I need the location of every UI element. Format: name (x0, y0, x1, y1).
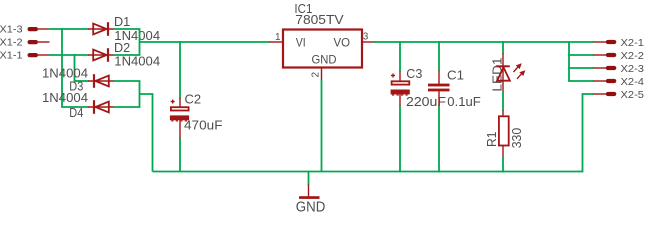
resistor R1 (485, 110, 524, 157)
connector pin X2-1 (593, 37, 644, 49)
wire C2 top stem (179, 41, 181, 99)
svg-text:GND: GND (312, 53, 337, 67)
connector pin X1-1 (0, 50, 49, 62)
svg-text:LED1: LED1 (490, 57, 504, 91)
connector pin X2-5 (593, 89, 644, 101)
wire to D3 cathode (74, 80, 89, 82)
svg-text:D4: D4 (69, 106, 83, 120)
diode D1 (88, 15, 160, 43)
wire vertical X1-1 down to D3 cathode line (74, 54, 76, 81)
connector pin X2-4 (593, 76, 644, 88)
connector pin X2-2 (593, 50, 644, 62)
wire C3 top stem (399, 41, 401, 72)
svg-text:X2-4: X2-4 (621, 76, 645, 88)
ground (296, 185, 326, 216)
svg-text:X1-1: X1-1 (0, 50, 23, 62)
wire IC1 VO output line (374, 41, 594, 43)
svg-text:470uF: 470uF (184, 119, 223, 133)
svg-text:X2-3: X2-3 (621, 63, 645, 75)
wire LED top stem (502, 41, 504, 54)
LED LED1 (490, 54, 525, 93)
svg-text:C2: C2 (185, 92, 202, 106)
diode D3 (42, 67, 114, 94)
wire branch to X2-3 (568, 67, 593, 69)
diode D2 (88, 41, 160, 68)
svg-text:X2-2: X2-2 (621, 50, 645, 62)
IC1 pin 2 (321, 68, 323, 81)
wire branch to X2-4 (568, 80, 593, 82)
wire jog to ground rail (140, 94, 153, 172)
capacitor C1 (428, 69, 481, 109)
wire D2 cathode to junction (114, 54, 141, 56)
IC1 7805TV voltage regulator (269, 2, 375, 80)
wire X1-1 to D2 anode (49, 54, 89, 56)
svg-text:2: 2 (311, 72, 322, 78)
wire GND stem (308, 172, 310, 186)
wire vertical X1-3 down to D4 cathode line (61, 28, 63, 107)
svg-text:R1: R1 (485, 131, 499, 147)
IC1 pin 3 (362, 41, 375, 43)
svg-text:X1-2: X1-2 (0, 37, 23, 49)
connector pin X1-3 (0, 24, 49, 36)
svg-text:330: 330 (510, 128, 524, 149)
svg-text:VO: VO (334, 35, 351, 49)
wire X2 branch vertical (568, 42, 570, 81)
wire D4 anode to junction (114, 106, 141, 108)
connector pin X2-3 (593, 63, 644, 75)
svg-text:220uF: 220uF (406, 95, 446, 109)
wire D1 cathode to junction (114, 28, 141, 30)
svg-text:VI: VI (296, 35, 306, 49)
wire X2-5 to ground rail (583, 94, 594, 172)
IC1 pin 1 (269, 41, 283, 43)
svg-text:D1: D1 (114, 15, 130, 29)
svg-text:D2: D2 (114, 41, 130, 55)
wire C2 bottom stem (179, 138, 181, 172)
svg-text:1N4004: 1N4004 (114, 55, 160, 69)
capacitor C2 (170, 92, 223, 138)
svg-text:X1-3: X1-3 (0, 24, 23, 36)
LED arrow 1 (513, 65, 519, 72)
svg-text:1N4004: 1N4004 (42, 67, 88, 81)
wire ground rail (153, 171, 583, 173)
wire C3 bottom stem (399, 106, 401, 173)
diode D4 (42, 91, 114, 120)
wire main positive rail to IC1 VI (140, 41, 270, 43)
capacitor C3 (391, 67, 447, 109)
svg-text:0.1uF: 0.1uF (447, 95, 481, 109)
svg-text:X2-5: X2-5 (621, 89, 645, 101)
svg-text:C3: C3 (406, 67, 422, 81)
wire branch to X2-2 (568, 54, 593, 56)
wire LED to R1 (502, 92, 504, 111)
wire vertical joining D1/D2 cathodes (139, 29, 141, 55)
wire vertical joining D3/D4 anodes (139, 81, 141, 107)
wire D3 anode to junction (114, 80, 141, 82)
svg-text:C1: C1 (447, 69, 464, 83)
svg-text:7805TV: 7805TV (295, 13, 344, 27)
wire X1-3 to D1 anode (49, 28, 89, 30)
wire to D4 cathode (61, 106, 88, 108)
svg-text:GND: GND (296, 199, 326, 215)
wire C1 top stem (438, 41, 440, 71)
svg-text:3: 3 (363, 32, 369, 43)
svg-text:X2-1: X2-1 (621, 37, 645, 49)
wire IC1 GND pin to rail (321, 80, 323, 172)
svg-text:1N4004: 1N4004 (42, 91, 88, 105)
LED arrow 2 (517, 72, 523, 79)
svg-text:1: 1 (275, 32, 281, 43)
wire R1 to rail (502, 157, 504, 173)
connector pin X1-2 (0, 37, 50, 49)
wire C1 bottom stem (438, 106, 440, 173)
